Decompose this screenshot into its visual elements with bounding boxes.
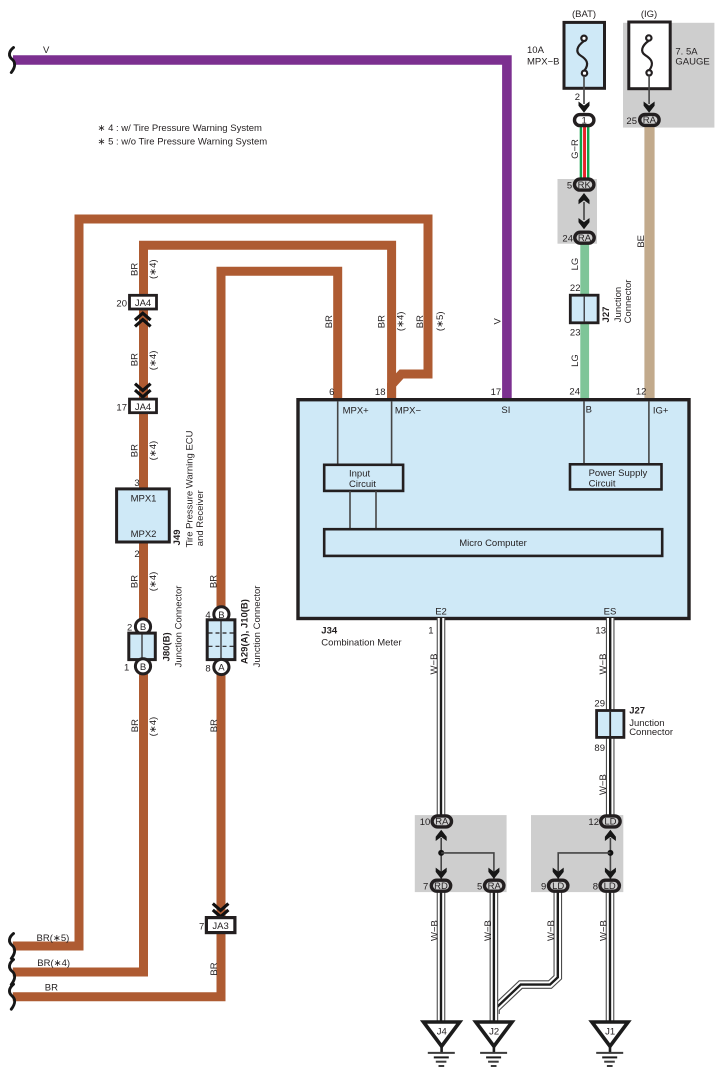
junction connector JA4 pin 17 xyxy=(130,399,157,413)
input circuit block xyxy=(324,465,403,491)
svg-text:9: 9 xyxy=(541,881,546,892)
svg-text:J1: J1 xyxy=(605,1026,615,1037)
svg-text:BR: BR xyxy=(377,315,388,328)
svg-text:J27: J27 xyxy=(629,706,645,717)
wire BR loop 1 (outer, *5): left vertical, top run, right drop merging into MPX- pin 18 xyxy=(79,219,428,946)
svg-text:1: 1 xyxy=(124,663,129,674)
wire W-B from J27 pin 89 to splice LD12 xyxy=(606,736,615,816)
svg-text:BR: BR xyxy=(129,575,140,588)
svg-text:(∗4): (∗4) xyxy=(148,441,159,461)
internal lead input circuit to micro computer (left) xyxy=(349,491,351,530)
svg-text:7: 7 xyxy=(199,922,204,933)
svg-text:(∗5): (∗5) xyxy=(435,312,446,332)
fuse 10A MPX-B (BAT) box xyxy=(564,22,605,88)
svg-text:JA4: JA4 xyxy=(135,298,151,309)
svg-text:(∗4): (∗4) xyxy=(395,312,406,332)
junction connector A29(A),J10(B) body xyxy=(207,620,235,660)
svg-text:IG+: IG+ xyxy=(653,405,669,416)
lead from fuse IG to arrow xyxy=(648,76,650,105)
arrow down toward RA5 xyxy=(488,868,499,879)
svg-text:(∗4): (∗4) xyxy=(148,259,159,279)
chevron pass-through up (below JA4 20) xyxy=(135,313,151,326)
junction connector J27 pins 29/89 xyxy=(597,711,624,738)
splice ellipse RA pin 5 xyxy=(485,880,504,891)
splice ellipse 1 xyxy=(575,115,594,126)
ground J4 xyxy=(424,1022,460,1066)
svg-text:RA: RA xyxy=(578,233,592,244)
ground J2 xyxy=(476,1022,512,1066)
splice lead LD12 down to LD8 with branch xyxy=(609,838,611,879)
svg-text:and Receiver: and Receiver xyxy=(195,490,206,546)
svg-text:G−R: G−R xyxy=(570,139,581,159)
svg-text:4: 4 xyxy=(205,610,210,621)
junction dot right splice xyxy=(607,850,613,856)
svg-text:LG: LG xyxy=(570,354,581,367)
junction connector J80(B) body xyxy=(129,633,156,660)
arrow down toward LD8 xyxy=(605,868,616,879)
svg-text:25: 25 xyxy=(626,116,637,127)
splice ellipse LD pin 9 xyxy=(549,880,568,891)
internal lead pin 12 IG+ to power supply circuit xyxy=(648,401,650,465)
svg-text:BE: BE xyxy=(636,235,647,248)
svg-text:B: B xyxy=(586,404,592,415)
splice ellipse LD pin 8 xyxy=(600,880,619,891)
svg-text:W−B: W−B xyxy=(429,654,440,675)
chevron pass-through down (above JA3) xyxy=(213,904,229,917)
fuse element symbol BAT xyxy=(577,36,587,76)
splice lead RA10 down to RD7 with branch xyxy=(440,838,442,879)
svg-text:W−B: W−B xyxy=(598,774,609,795)
svg-text:LD: LD xyxy=(552,881,564,892)
svg-text:MPX1: MPX1 xyxy=(131,494,157,505)
ground J1 xyxy=(592,1022,628,1066)
svg-text:BR: BR xyxy=(324,315,335,328)
svg-text:6: 6 xyxy=(329,387,334,398)
svg-text:V: V xyxy=(43,45,50,56)
fuse 7.5A GAUGE (IG) box xyxy=(629,22,670,89)
break symbol at left end of V wire xyxy=(9,48,14,73)
wire BR loop 2 (*4): left vertical through JA4/MPX/J80, top run, right drop to pin 18 xyxy=(144,245,392,972)
svg-text:10: 10 xyxy=(420,817,431,828)
svg-text:BR: BR xyxy=(415,315,426,328)
svg-text:2: 2 xyxy=(575,92,580,103)
svg-text:10A: 10A xyxy=(527,45,545,56)
svg-text:12: 12 xyxy=(636,387,647,398)
gray background block around RK/RA splice 5-24 xyxy=(558,179,598,244)
wire BR bottom horizontal to break xyxy=(13,992,226,1001)
svg-text:Micro Computer: Micro Computer xyxy=(459,538,527,549)
svg-text:BR: BR xyxy=(209,719,220,732)
wire W-B from ES pin 13 to J27 pin 29 xyxy=(606,618,615,712)
arrow up toward RK xyxy=(579,193,590,204)
arrow down into RA25 xyxy=(644,102,655,113)
svg-text:1: 1 xyxy=(582,115,587,126)
svg-text:RA: RA xyxy=(488,881,502,892)
svg-text:1: 1 xyxy=(428,626,433,637)
power supply circuit block xyxy=(570,464,662,489)
lead RK to RA xyxy=(583,202,585,220)
svg-text:E2: E2 xyxy=(435,607,447,618)
svg-text:BR: BR xyxy=(129,263,140,276)
splice ellipse RD pin 7 xyxy=(431,880,450,891)
break symbol BR(*5) xyxy=(9,934,14,959)
svg-text:24: 24 xyxy=(569,387,580,398)
junction connector A29(A),J10(B) lower terminal A pin 8 xyxy=(214,659,229,674)
splice ellipse RA pin 25 xyxy=(640,114,659,125)
svg-text:24: 24 xyxy=(562,234,573,245)
svg-text:J27: J27 xyxy=(601,307,612,323)
arrow down toward LD9 xyxy=(553,868,564,879)
arrow down into splice 1 xyxy=(579,102,590,113)
micro computer block xyxy=(324,529,662,556)
svg-text:MPX−: MPX− xyxy=(395,406,422,417)
svg-text:BR: BR xyxy=(209,962,220,975)
svg-text:BR: BR xyxy=(208,575,219,588)
junction connector J80(B) lower terminal B pin 1 xyxy=(135,659,150,674)
svg-text:(∗4): (∗4) xyxy=(148,717,159,737)
wire W-B from LD9 jog over to J2 ground wire xyxy=(496,891,558,1014)
gray background block around LD12/LD9/LD8 splice group xyxy=(531,815,623,892)
junction connector JA3 pin 7 xyxy=(206,918,235,933)
svg-text:∗ 4 : w/ Tire Pressure Warning: ∗ 4 : w/ Tire Pressure Warning System xyxy=(98,123,262,134)
junction connector A29(A),J10(B) upper terminal B pin 4 xyxy=(214,607,229,622)
svg-text:MPX2: MPX2 xyxy=(131,529,157,540)
svg-text:MPX+: MPX+ xyxy=(343,406,370,417)
branch lead to RA5 xyxy=(441,853,494,879)
svg-text:89: 89 xyxy=(594,743,605,754)
wire W-B from RD7 to ground J4 xyxy=(437,891,446,1023)
svg-text:Connector: Connector xyxy=(629,727,673,738)
svg-text:V: V xyxy=(492,317,503,324)
wire LG upper segment (RA24 to J27 pin22) xyxy=(580,243,589,296)
svg-text:LD: LD xyxy=(604,817,616,828)
svg-text:W−B: W−B xyxy=(598,654,609,675)
wire W-B from RA5 to ground J2 xyxy=(490,891,499,1023)
svg-text:BR(∗4): BR(∗4) xyxy=(37,958,70,969)
wire W-B from LD8 to ground J1 xyxy=(606,891,615,1023)
arrow down toward RD7 xyxy=(436,868,447,879)
svg-text:22: 22 xyxy=(570,283,581,294)
break symbol BR xyxy=(9,984,14,1009)
wire BR(*4) bottom horizontal to break xyxy=(13,968,148,977)
svg-text:ES: ES xyxy=(604,607,617,618)
svg-text:(∗4): (∗4) xyxy=(148,351,159,371)
junction connector JA4 pin 20 xyxy=(130,295,157,309)
svg-text:Connector: Connector xyxy=(623,280,634,324)
svg-text:B: B xyxy=(140,662,146,673)
wire BE (fuse IG to pin 12 IG+) xyxy=(644,127,654,402)
svg-text:J49: J49 xyxy=(172,529,183,545)
svg-text:13: 13 xyxy=(595,626,606,637)
svg-text:BR: BR xyxy=(45,983,58,994)
svg-text:RA: RA xyxy=(435,817,449,828)
wire G-R striped (fuse 1 to splice 5) xyxy=(580,127,590,181)
svg-text:Junction Connector: Junction Connector xyxy=(252,586,263,668)
break symbol BR(*4) xyxy=(9,960,14,985)
svg-text:JA3: JA3 xyxy=(212,921,228,932)
svg-text:LG: LG xyxy=(570,258,581,271)
svg-text:RA: RA xyxy=(643,115,657,126)
svg-text:Input: Input xyxy=(349,469,370,480)
svg-text:B: B xyxy=(140,622,146,633)
svg-text:J34: J34 xyxy=(321,626,338,637)
splice ellipse RK pin 5 xyxy=(575,179,594,190)
gray background block around RA10/RD7/RA5 splice group xyxy=(415,815,507,892)
svg-text:∗ 5 : w/o Tire Pressure Warnin: ∗ 5 : w/o Tire Pressure Warning System xyxy=(98,137,268,148)
internal lead pin 6 to input circuit xyxy=(337,401,339,465)
svg-text:BR(∗5): BR(∗5) xyxy=(37,933,70,944)
svg-text:RD: RD xyxy=(434,881,448,892)
junction connector J27 pins 22/23 xyxy=(570,295,598,323)
splice ellipse RA pin 24 xyxy=(575,232,594,243)
svg-text:5: 5 xyxy=(477,881,482,892)
chevron pass-through down (above JA4 17) xyxy=(135,384,151,397)
internal lead pin 24 B to power supply circuit xyxy=(583,401,585,465)
svg-text:W−B: W−B xyxy=(598,920,609,941)
wire W-B from E2 pin 1 to splice RA10 xyxy=(437,618,446,816)
wire V (purple) from break to pin 17 SI xyxy=(13,60,507,401)
gray background block around IG fuse xyxy=(623,23,714,128)
svg-text:7: 7 xyxy=(423,881,428,892)
tire pressure warning ECU J49 box MPX1/MPX2 xyxy=(117,489,170,542)
svg-text:29: 29 xyxy=(594,699,605,710)
svg-text:Junction Connector: Junction Connector xyxy=(174,586,185,668)
svg-text:Circuit: Circuit xyxy=(589,479,616,490)
svg-text:LD: LD xyxy=(604,881,616,892)
svg-text:2: 2 xyxy=(127,623,132,634)
wire BR loop 3: left vertical through A29/JA3, top run, right drop to pin 6 xyxy=(221,271,338,996)
svg-text:RK: RK xyxy=(578,180,592,191)
lead from fuse BAT to arrow xyxy=(583,76,585,104)
wire BR(*5) bottom horizontal to break xyxy=(13,942,84,951)
svg-text:8: 8 xyxy=(205,663,210,674)
svg-text:MPX−B: MPX−B xyxy=(527,57,559,68)
svg-text:(∗4): (∗4) xyxy=(148,572,159,592)
svg-text:Circuit: Circuit xyxy=(349,479,376,490)
svg-text:12: 12 xyxy=(588,817,599,828)
svg-text:5: 5 xyxy=(567,180,572,191)
combination meter J34 main box xyxy=(298,400,689,619)
svg-text:BR: BR xyxy=(130,719,141,732)
svg-text:J80(B): J80(B) xyxy=(162,632,173,661)
svg-text:BR: BR xyxy=(129,353,140,366)
internal lead pin 18 to input circuit xyxy=(391,401,393,465)
arrow down toward RA24 xyxy=(579,218,590,229)
svg-text:J2: J2 xyxy=(489,1026,499,1037)
svg-text:18: 18 xyxy=(375,387,386,398)
svg-text:2: 2 xyxy=(134,549,139,560)
svg-text:20: 20 xyxy=(116,299,127,310)
splice ellipse RA pin 10 xyxy=(432,816,451,827)
arrow up toward LD12 xyxy=(605,830,616,841)
svg-text:SI: SI xyxy=(501,405,510,416)
svg-text:(BAT): (BAT) xyxy=(572,9,596,20)
svg-text:17: 17 xyxy=(116,402,127,413)
splice ellipse LD pin 12 xyxy=(601,816,620,827)
svg-text:JA4: JA4 xyxy=(135,402,151,413)
svg-text:Combination Meter: Combination Meter xyxy=(321,638,401,649)
svg-text:GAUGE: GAUGE xyxy=(675,57,709,68)
branch lead to LD9 xyxy=(558,853,610,879)
junction dot left splice xyxy=(438,850,444,856)
svg-text:BR: BR xyxy=(129,444,140,457)
svg-text:A29(A), J10(B): A29(A), J10(B) xyxy=(239,599,250,664)
internal lead input circuit to micro computer (right) xyxy=(375,491,377,530)
svg-text:J4: J4 xyxy=(437,1026,447,1037)
svg-text:8: 8 xyxy=(593,881,598,892)
svg-text:(IG): (IG) xyxy=(641,9,657,20)
junction connector J80(B) upper terminal B pin 2 xyxy=(135,619,150,634)
wire LG lower segment (J27 pin23 to pin 24 B) xyxy=(580,322,589,401)
svg-text:W−B: W−B xyxy=(546,920,557,941)
svg-text:3: 3 xyxy=(134,478,139,489)
svg-text:W−B: W−B xyxy=(429,920,440,941)
svg-text:A: A xyxy=(218,663,225,674)
svg-text:17: 17 xyxy=(491,387,502,398)
svg-text:23: 23 xyxy=(570,328,581,339)
svg-text:Power Supply: Power Supply xyxy=(589,468,648,479)
arrow up toward RA10 xyxy=(436,830,447,841)
fuse element symbol IG xyxy=(642,35,652,75)
svg-text:Tire Pressure Warning ECU: Tire Pressure Warning ECU xyxy=(185,430,196,547)
svg-text:W−B: W−B xyxy=(483,920,494,941)
